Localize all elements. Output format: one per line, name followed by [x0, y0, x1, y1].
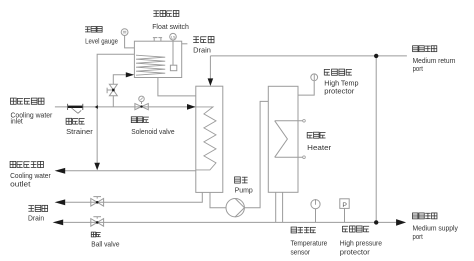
- label: Cooling water inlet: [11, 110, 53, 125]
- label: 液位计: [85, 27, 102, 33]
- vent cap on expansion tank: [153, 38, 162, 42]
- svg-text:Drain: Drain: [193, 45, 211, 54]
- arrow: cooling water outlet: [55, 168, 66, 174]
- strainer (过滤器): [68, 104, 83, 114]
- tank: heating tank: [196, 86, 223, 192]
- wire: heater outlet risers: [276, 192, 283, 222]
- svg-text:Temperature: Temperature: [291, 238, 328, 247]
- level gauge (液位计): [121, 29, 134, 48]
- wire: return-supply bypass: [375, 56, 377, 223]
- svg-text:sensor: sensor: [291, 247, 311, 256]
- wire: oil drain line: [55, 192, 203, 205]
- label: 温度探头: [291, 227, 316, 233]
- wire: medium supply / drain line: [53, 220, 397, 226]
- label: Solenoid valve: [131, 127, 174, 136]
- solenoid valve (电磁阀): [135, 96, 148, 110]
- label: 电磁阀: [131, 117, 149, 123]
- svg-text:High pressure: High pressure: [340, 238, 382, 247]
- heating element: [275, 120, 306, 159]
- label: High Temp protector: [324, 78, 358, 95]
- svg-text:protector: protector: [324, 87, 355, 96]
- svg-text:P: P: [342, 202, 347, 209]
- arrow: medium supply port: [396, 219, 406, 226]
- wire: return drop into heating tank: [208, 56, 214, 86]
- label: 加热器: [307, 132, 325, 138]
- tank: expansion tank: [134, 41, 181, 77]
- label: Cooling water outlet: [10, 171, 51, 188]
- svg-text:LS: LS: [171, 36, 176, 40]
- label: Pump: [235, 186, 253, 195]
- ball valve BV2 (球阀) on drain: [91, 217, 104, 227]
- pump (泵浦): [226, 199, 244, 217]
- label: 浮球开关: [153, 11, 178, 17]
- wire: medium return header: [210, 55, 407, 57]
- label: 冷却水出口: [10, 161, 43, 167]
- label: Drain (oil): [28, 214, 44, 223]
- label: 热油回口: [413, 46, 437, 52]
- svg-text:port: port: [413, 64, 423, 73]
- arrow: inlet into heating tank: [187, 104, 196, 110]
- label: Level gauge: [85, 36, 118, 45]
- temperature sensor (温度探头): [311, 200, 320, 223]
- svg-text:port: port: [413, 232, 423, 241]
- high temp protector (高温保护): [298, 74, 318, 95]
- svg-text:Strainer: Strainer: [66, 127, 93, 136]
- svg-text:outlet: outlet: [10, 180, 30, 189]
- label: Strainer: [66, 127, 93, 136]
- svg-text:Level gauge: Level gauge: [85, 36, 118, 45]
- svg-text:Pump: Pump: [235, 186, 253, 195]
- label: Ball valve: [91, 240, 119, 249]
- svg-text:protector: protector: [340, 247, 371, 256]
- label: 排油口: [28, 205, 47, 211]
- svg-text:Solenoid valve: Solenoid valve: [131, 127, 174, 136]
- svg-text:Heater: Heater: [307, 143, 332, 152]
- wire: cooling water inlet line: [55, 106, 196, 108]
- label: Medium supply port: [413, 224, 459, 241]
- wire: bypass riser to expansion tank: [113, 72, 134, 107]
- label: Drain (vent): [193, 45, 211, 54]
- label: Heater: [307, 143, 332, 152]
- wire: cooling water outlet line: [65, 170, 196, 172]
- label: 球阀: [91, 232, 100, 237]
- coil: cooling coil in expansion tank: [136, 55, 165, 75]
- wire: pump discharge to heater: [244, 101, 268, 207]
- svg-text:Float switch: Float switch: [152, 22, 189, 31]
- wire: vent stub to drain port: [182, 43, 188, 45]
- node: junction flow arrow on inlet line: [95, 105, 98, 109]
- label: Medium return port: [413, 56, 456, 73]
- heater vessel (加热器): [268, 86, 298, 192]
- svg-text:Ball valve: Ball valve: [91, 240, 119, 249]
- label: Temperature sensor: [291, 238, 328, 256]
- svg-text:Drain: Drain: [28, 214, 44, 223]
- node: junction dot on supply line: [374, 220, 378, 224]
- svg-text:inlet: inlet: [11, 117, 23, 126]
- label: High pressure protector: [340, 238, 382, 256]
- label: 高温保护: [324, 69, 352, 75]
- coil: cooling coil in heating tank: [196, 107, 216, 170]
- label: 过滤器: [66, 118, 85, 124]
- label: 冷却水入口: [11, 98, 45, 104]
- valve: pressure valve on bypass: [107, 84, 117, 95]
- float switch (浮球开关) LS: [170, 33, 177, 70]
- node: junction dot on return header: [374, 54, 378, 58]
- high pressure protector (高压保护): [340, 199, 349, 223]
- label: 排气口: [193, 36, 214, 42]
- label: 泵浦: [235, 177, 248, 183]
- ball valve BV1 (球阀) on oil drain: [91, 197, 104, 207]
- label: Float switch: [152, 22, 189, 31]
- label: 高压保护: [343, 226, 370, 232]
- node: coil return drop with junction crossing: [94, 54, 134, 170]
- label: 热油出口: [413, 213, 437, 219]
- wire: pump suction: [210, 192, 226, 207]
- wire: expansion tank to heating tank feed: [158, 78, 196, 96]
